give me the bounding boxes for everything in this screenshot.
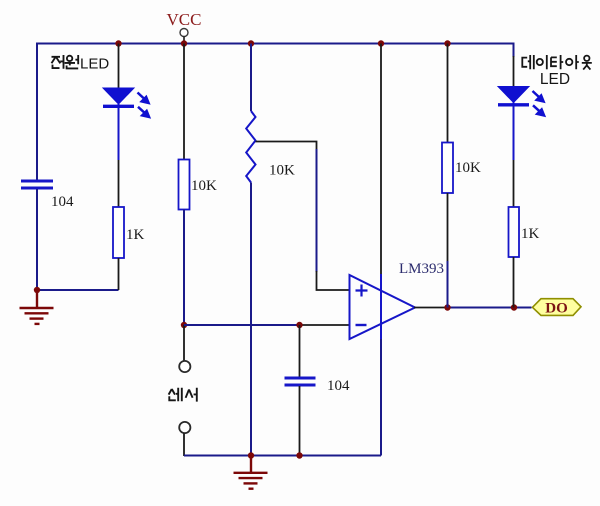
op-amp plus sign [356, 285, 368, 297]
wire bus to R2 [183, 44, 185, 160]
resistor R4 1K [509, 207, 520, 257]
wire op-amp output stub [414, 307, 448, 309]
node junction gnd-bus ground [248, 452, 254, 458]
node junction bus-opamp power [378, 40, 384, 46]
label 전원LED [52, 55, 79, 69]
LED D1 (power LED) [103, 88, 134, 109]
wire pot wiper vertical [316, 149, 318, 272]
wire bus to R3 [447, 44, 449, 143]
svg-text:1K: 1K [521, 226, 540, 242]
타 [551, 57, 557, 66]
node junction minus-cap [296, 322, 302, 328]
svg-text:1K: 1K [126, 227, 145, 243]
node junction output-R3 [444, 304, 450, 310]
svg-text:LM393: LM393 [399, 261, 444, 277]
wire to R1 [118, 160, 120, 207]
capacitor C2 104 [285, 377, 316, 380]
node junction bus-R3 [444, 40, 450, 46]
node VCC terminal [180, 29, 188, 37]
svg-text:10K: 10K [191, 178, 217, 194]
wire pot lower lead to gnd bus [250, 183, 252, 456]
wire bus to potentiometer [250, 44, 252, 112]
svg-text:LED: LED [540, 71, 570, 88]
wire left branch vertical [36, 43, 38, 182]
wire output to DO [448, 307, 532, 309]
wire R2 to minus junction [183, 210, 185, 326]
svg-text:104: 104 [51, 194, 74, 210]
센 [169, 389, 176, 400]
아 [566, 59, 572, 65]
svg-text:10K: 10K [269, 163, 295, 179]
resistor R1 1K [113, 207, 124, 258]
서 [186, 390, 193, 398]
svg-text:LED: LED [80, 56, 109, 73]
node junction cap2-gndbus [296, 452, 302, 458]
wire LED2 cathode lead [513, 107, 515, 161]
wire minus input stub [300, 324, 351, 326]
label 데이타아웃 / LED [522, 55, 592, 70]
웃 [584, 56, 589, 61]
resistor R2 10K [179, 160, 190, 210]
wire bus to LED1 anode [118, 44, 120, 89]
데 [522, 58, 527, 67]
svg-text:104: 104 [327, 378, 350, 394]
wire lead to LED2 anode [513, 56, 515, 87]
node junction bus-R2 (VCC) [181, 40, 187, 46]
wire cap2 upper lead [299, 325, 301, 378]
node junction sensor/minus [181, 322, 187, 328]
wire top VCC bus [37, 43, 514, 45]
wire op-amp power vertical lower [380, 339, 382, 456]
wire minus input [184, 324, 300, 326]
node junction output-R4 [511, 304, 517, 310]
wire R1 to bottom-left [118, 258, 120, 290]
svg-text:DO: DO [545, 301, 568, 317]
potentiometer RV1 10K zigzag [246, 111, 255, 183]
wire plus input stub [317, 271, 351, 290]
wire pot wiper horizontal [256, 142, 317, 151]
op-amp minus sign [356, 324, 367, 326]
wire op-amp power vertical upper [380, 44, 382, 277]
LED D1 arrows [138, 93, 151, 119]
wire LED1 cathode lead [118, 108, 120, 160]
LED D2 arrows [533, 91, 546, 117]
capacitor C1 104 [21, 180, 53, 183]
wire to R4 [513, 160, 515, 207]
wire bus right corner down [513, 44, 514, 58]
wire op-amp power vertical inner [380, 274, 382, 340]
wire sensor terminal 2 stub [183, 434, 185, 457]
LED D2 (data out LED) [498, 87, 529, 108]
resistor R3 10K [442, 143, 453, 194]
port DO tag [533, 299, 582, 316]
wire cap to ground [36, 189, 38, 291]
wire R4 to output [513, 257, 515, 308]
svg-text:10K: 10K [455, 160, 481, 176]
wire R3 to output [447, 261, 449, 308]
전 [52, 57, 61, 68]
원 [67, 56, 72, 61]
node sensor terminal 2 [179, 422, 190, 433]
node junction bus-LED1 [115, 40, 121, 46]
wire bottom-left horizontal [37, 289, 119, 291]
node junction bus-pot [248, 40, 254, 46]
wire cap2 lower lead [299, 386, 301, 456]
op-amp U1 LM393 [350, 275, 416, 339]
label 센서 [169, 388, 197, 402]
node junction left-gnd [34, 287, 40, 293]
ground GND1 [20, 292, 54, 324]
ground GND2 [234, 457, 268, 489]
svg-text:VCC: VCC [167, 10, 202, 29]
wire sensor terminal 1 stub [183, 325, 185, 361]
wire R3 lead lower stub [447, 193, 449, 262]
wire bottom GND bus [184, 455, 381, 457]
node sensor terminal 1 [179, 361, 190, 372]
이 [537, 59, 543, 65]
